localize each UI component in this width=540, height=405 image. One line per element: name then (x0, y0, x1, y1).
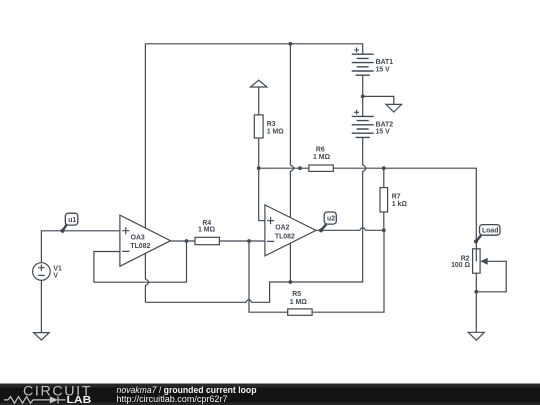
svg-text:u2: u2 (327, 216, 335, 223)
wire BAT2- down to V- rail (hops over R6 wire) (290, 137, 366, 282)
node label u1 (60, 213, 77, 233)
wire OA2 V+ riser (hops over R6 wire) (290, 44, 293, 218)
node junction: R7 / OA2 output / R5 (382, 228, 386, 232)
wire OA2 + input drop from R6 node (259, 168, 265, 221)
svg-text:TL082: TL082 (275, 233, 295, 240)
resistor R5 1 MOhm (288, 291, 312, 316)
svg-text:BAT1: BAT1 (376, 59, 394, 66)
resistor R6 1 MOhm (309, 147, 333, 172)
svg-text:Load: Load (482, 228, 498, 235)
wire R6 to load drop down to R2 (333, 168, 476, 249)
battery BAT1 15 V (352, 48, 394, 76)
svg-text:1 MΩ: 1 MΩ (313, 154, 330, 161)
svg-text:R6: R6 (316, 147, 325, 154)
ground GND at V1 (34, 333, 50, 340)
flipped ground symbol above R3 (251, 80, 267, 115)
wire V1 to ground (40, 280, 42, 332)
node junction: R7 top (382, 166, 386, 170)
svg-text:TL082: TL082 (130, 243, 150, 250)
wire V1 to OA3 + input (41, 231, 120, 263)
svg-text:R7: R7 (392, 194, 401, 201)
CircuitLab logo: resistor zigzag and diode (4, 396, 66, 403)
svg-text:1 MΩ: 1 MΩ (267, 129, 284, 136)
resistor R3 1 MOhm (254, 115, 284, 168)
wire OA2 - node down to R5 (249, 241, 288, 312)
node junction: OA2 V- / V- rail (289, 280, 293, 284)
wire battery midpoint to ground (363, 96, 394, 104)
voltage source V1 (33, 263, 62, 281)
node junction: R3 / R6 / OA2 + (257, 166, 261, 170)
wire OA3 output to R4 (171, 240, 196, 242)
svg-text:15 V: 15 V (376, 67, 391, 74)
svg-text:u1: u1 (68, 217, 76, 224)
CircuitLab logo: CIRCUIT (23, 384, 92, 399)
node junction: OA3 output / R4 / feedback (185, 239, 189, 243)
wire R6 row left (259, 167, 309, 169)
wire OA3 V- pin (hops over feedback wire) (145, 253, 148, 302)
op-amp OA3 TL082 (120, 215, 171, 266)
svg-text:LAB: LAB (67, 395, 92, 405)
wire +15V rail: OA3 V+ riser, top rail, down to BAT1 + (145, 44, 362, 228)
node label u2 (319, 212, 336, 232)
svg-text:BAT2: BAT2 (376, 121, 394, 128)
svg-text:OA2: OA2 (275, 224, 289, 231)
svg-text:V: V (53, 273, 58, 280)
node junction: top rail / OA2 V+ (289, 42, 293, 46)
svg-text:15 V: 15 V (376, 129, 391, 136)
svg-text:1 kΩ: 1 kΩ (392, 201, 408, 208)
svg-text:1 MΩ: 1 MΩ (198, 226, 215, 233)
wire V- rail west segment to OA3 V- (hops over R5 branch riser) (145, 282, 290, 302)
svg-text:OA3: OA3 (131, 234, 145, 241)
svg-text:R5: R5 (292, 291, 301, 298)
node junction: R2 wiper return (474, 290, 478, 294)
ground GND at batteries (386, 104, 402, 112)
wire OA3 feedback loop (94, 241, 187, 282)
ground GND at R2 (468, 332, 484, 340)
node label Load (474, 225, 500, 244)
svg-text:R3: R3 (267, 121, 276, 128)
svg-text:1 MΩ: 1 MΩ (290, 299, 307, 306)
wire OA2 output row (hops over BAT2 wire) (316, 228, 384, 231)
potentiometer R2 100 Ohm (451, 249, 506, 332)
node junction: battery midpoint (361, 95, 365, 99)
svg-text:http://circuitlab.com/cpr62r7: http://circuitlab.com/cpr62r7 (117, 394, 228, 404)
footer url text (117, 394, 228, 404)
op-amp OA2 TL082 (265, 205, 316, 256)
wire R5 to output node riser (312, 230, 384, 312)
battery BAT2 15 V (352, 110, 394, 138)
node junction: R4 / OA2 - / R5 branch (247, 239, 251, 243)
CircuitLab logo: LAB (67, 395, 92, 405)
wire R4 to OA2 - input (219, 240, 265, 242)
wire OA2 V- pin (289, 243, 291, 282)
svg-text:V1: V1 (53, 266, 62, 273)
footer title text (117, 385, 257, 395)
wire BAT1- to BAT2+ (362, 75, 364, 116)
resistor R7 1 kOhm (380, 188, 407, 212)
resistor R4 1 MOhm (195, 220, 219, 245)
footer bar (0, 384, 540, 405)
svg-text:100 Ω: 100 Ω (451, 262, 470, 269)
wire R7 stubs (383, 168, 385, 230)
node junction: R6 wire segment (298, 166, 302, 170)
